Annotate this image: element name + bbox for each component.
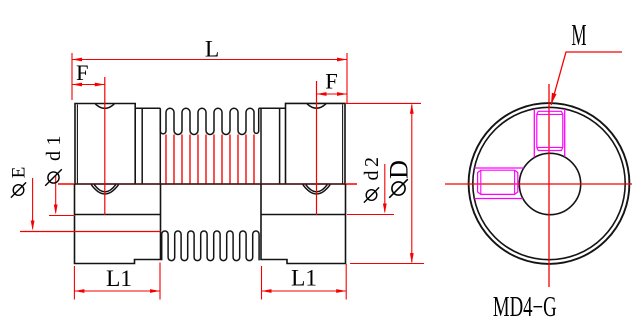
- svg-text:2: 2: [361, 157, 383, 167]
- svg-text:d: d: [361, 171, 383, 181]
- bellows upper section profile: [160, 108, 258, 134]
- left collar top edge: [135, 107, 160, 109]
- right screw centerline: [316, 81, 318, 215]
- svg-text:d: d: [43, 151, 65, 161]
- svg-text:L: L: [205, 37, 219, 63]
- right collar left edge: [260, 108, 262, 184]
- end view bore circle: [519, 153, 580, 214]
- dim L line: [72, 59, 347, 61]
- right hub lower outline: [261, 184, 346, 264]
- right hub chamfer line: [342, 104, 344, 184]
- end view outer circle: [469, 103, 630, 264]
- dim Od2 line: [384, 164, 386, 212]
- dim Od1 line: [55, 175, 57, 213]
- dim OE text: [11, 182, 26, 197]
- left collar right edge: [159, 108, 161, 184]
- dim L1 right ext lines: [261, 266, 263, 300]
- end view horizontal centerline: [445, 183, 632, 185]
- left screw hole bottom arcs: [91, 185, 118, 194]
- end view vertical centerline: [548, 84, 550, 287]
- dim OE line: [32, 178, 34, 229]
- dim F right line: [317, 93, 348, 95]
- top set screw body: [537, 111, 563, 150]
- right hub bore line: [261, 214, 346, 216]
- svg-text:L1: L1: [106, 266, 132, 292]
- dim L1 right line: [262, 290, 347, 292]
- right collar top edge: [259, 107, 286, 109]
- dim F left line: [72, 84, 105, 86]
- left hub bore line: [75, 214, 161, 216]
- dim Od2 ext line: [347, 214, 394, 216]
- left set screw body: [478, 170, 518, 194]
- M leader line: [551, 52, 622, 105]
- bellows lower outline: [162, 231, 259, 261]
- svg-text:L1: L1: [291, 266, 317, 292]
- svg-text:F: F: [76, 60, 89, 85]
- left screw centerline: [104, 77, 106, 215]
- dim L1 left ext lines: [73, 266, 75, 300]
- left hub upper outline: [75, 104, 135, 185]
- svg-text:M: M: [571, 19, 586, 52]
- dim Od1 ext line: [49, 215, 75, 217]
- svg-text:MD4−G: MD4−G: [493, 293, 557, 324]
- left hub screw hole arc (top): [95, 104, 114, 108]
- svg-text:F: F: [325, 69, 338, 94]
- right screw hole bottom arcs: [303, 185, 330, 194]
- right collar joint line: [279, 108, 281, 184]
- top set screw hole outer lines: [533, 109, 535, 158]
- dim OD ext lines: [345, 102, 421, 104]
- left set screw hole outer lines: [474, 167, 523, 169]
- left hub chamfer line: [76, 105, 78, 185]
- dim Od1 text: [45, 169, 62, 186]
- dim OE ext line (counterbore): [20, 231, 161, 233]
- right hub upper outline: [286, 103, 346, 184]
- left collar joint line: [141, 108, 143, 184]
- dim L1 left line: [74, 290, 160, 292]
- centerline red (side view): [58, 183, 357, 185]
- end view inner circle: [473, 107, 625, 259]
- dim Od2 text: [364, 187, 379, 202]
- svg-text:1: 1: [43, 136, 65, 146]
- left hub lower outline: [75, 184, 161, 264]
- right hub screw hole arc (top): [307, 104, 326, 108]
- dim L extension lines: [71, 53, 73, 100]
- svg-text:E: E: [9, 167, 30, 179]
- dim OD line: [411, 105, 413, 263]
- svg-text:D: D: [385, 160, 414, 179]
- dim OD text: [389, 179, 408, 198]
- hub junction line at centerline: [75, 183, 345, 185]
- bellows section red lines: [166, 135, 254, 184]
